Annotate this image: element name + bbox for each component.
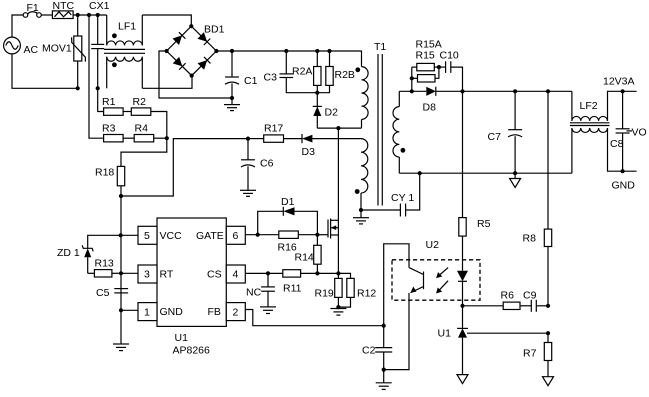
svg-text:R8: R8 xyxy=(523,233,537,245)
svg-text:CX1: CX1 xyxy=(89,0,110,12)
svg-text:C6: C6 xyxy=(260,158,274,170)
wire TL431 ref to divider xyxy=(467,332,548,334)
svg-text:GATE: GATE xyxy=(196,230,224,242)
svg-text:R2B: R2B xyxy=(335,69,355,81)
wire R3 feed (from top rail down to R3) xyxy=(89,15,104,138)
svg-text:C2: C2 xyxy=(362,345,376,357)
inductor LF2 xyxy=(570,91,637,173)
resistor R2B xyxy=(317,51,355,93)
svg-text:FB: FB xyxy=(208,306,221,318)
resistor R3 xyxy=(102,123,123,142)
wire gate node to MOSFET gate xyxy=(317,234,328,236)
svg-text:1: 1 xyxy=(144,306,150,318)
svg-text:GND: GND xyxy=(612,180,636,192)
node R5 top xyxy=(460,89,464,93)
wire secondary positive rail xyxy=(399,90,426,92)
resistor R18 xyxy=(95,166,125,185)
svg-text:T1: T1 xyxy=(374,41,386,53)
svg-text:VO: VO xyxy=(632,127,647,139)
wire AC top lead xyxy=(12,15,23,37)
ground (R19/R12) xyxy=(330,309,346,316)
svg-text:VCC: VCC xyxy=(160,230,183,242)
node C7 top xyxy=(513,89,517,93)
svg-text:NC: NC xyxy=(246,287,262,299)
resistor R8 xyxy=(523,91,552,305)
MOSFET Q1 xyxy=(328,219,338,239)
wire R2 right to R4 node xyxy=(151,112,167,139)
svg-text:R17: R17 xyxy=(264,123,283,135)
resistor R7 xyxy=(523,333,552,377)
capacitor CY1 xyxy=(361,173,420,216)
node C7 bottom xyxy=(513,171,517,175)
node C1 bottom xyxy=(230,96,234,100)
svg-text:C3: C3 xyxy=(264,72,278,84)
wire bridge negative (left corner to C1 ground rail) xyxy=(159,51,232,98)
svg-text:R11: R11 xyxy=(283,283,302,295)
ground (C1) xyxy=(224,98,240,111)
ground (C7, open triangle) xyxy=(514,173,516,178)
wire CS pin4 to source node xyxy=(245,272,282,274)
node C2 bottom xyxy=(382,368,386,372)
node D1 left xyxy=(256,233,260,237)
ground (aux winding) xyxy=(353,210,369,224)
wire FB node up to opto collector xyxy=(384,244,409,326)
svg-text:D1: D1 xyxy=(281,196,295,208)
capacitor C5 xyxy=(96,287,128,299)
capacitor C8 xyxy=(610,91,630,171)
pin 4 CS xyxy=(226,265,245,283)
svg-text:3: 3 xyxy=(144,269,150,281)
optocoupler U2 xyxy=(392,239,480,300)
node R2/R4 junction xyxy=(165,136,169,140)
node C1 top xyxy=(230,49,234,53)
wire R3 to R4 xyxy=(123,137,134,139)
svg-text:C1: C1 xyxy=(244,75,258,87)
svg-text:R3: R3 xyxy=(102,123,116,135)
node LED cathode / R6 xyxy=(460,304,464,308)
node R14 bottom xyxy=(315,271,319,275)
svg-text:U2: U2 xyxy=(426,239,440,251)
wire bottom rail LF1 to bridge xyxy=(142,76,192,89)
svg-text:F1: F1 xyxy=(27,2,39,14)
svg-text:R6: R6 xyxy=(501,290,515,302)
wire R18 bottom to VCC node xyxy=(120,186,122,196)
transformer T1 secondary winding xyxy=(393,91,405,173)
resistor R5 xyxy=(459,91,491,259)
bridge rectifier BD1 xyxy=(165,24,225,78)
resistor R11 xyxy=(283,270,318,295)
svg-text:R14: R14 xyxy=(295,252,314,264)
pin 1 GND xyxy=(121,303,157,321)
diode D2 xyxy=(313,93,338,128)
resistor R15 xyxy=(412,39,442,71)
svg-text:R13: R13 xyxy=(95,258,114,270)
node drain branch xyxy=(336,126,340,130)
svg-text:NTC: NTC xyxy=(53,0,75,12)
wire secondary ground rail xyxy=(399,172,572,174)
node C10 left xyxy=(437,65,441,69)
svg-text:R12: R12 xyxy=(357,288,376,300)
node CX1 bottom / R1 branch xyxy=(96,86,100,90)
shunt regulator U1 (TL431) xyxy=(438,328,468,375)
wire snubber to primary bottom (drain node) xyxy=(317,127,361,129)
diode D8 xyxy=(423,87,463,114)
svg-text:R2A: R2A xyxy=(292,66,312,78)
pin 2 FB xyxy=(226,303,245,321)
zener ZD1 xyxy=(57,235,121,273)
node CX1 top xyxy=(96,13,100,17)
svg-text:U1: U1 xyxy=(438,328,452,340)
svg-text:GND: GND xyxy=(160,306,184,318)
wire rail D8 to LF2 xyxy=(463,90,572,92)
diode D3 xyxy=(284,134,362,158)
wire drain vertical xyxy=(337,128,339,273)
resistor R19 xyxy=(315,273,343,307)
common-mode choke LF1 xyxy=(104,15,145,88)
svg-text:AP8266: AP8266 xyxy=(173,345,211,357)
svg-text:RT: RT xyxy=(160,269,174,281)
node CX1 top R3-branch xyxy=(87,13,91,17)
wire R1 to R2 xyxy=(123,111,131,113)
resistor R6 xyxy=(463,290,532,310)
pin 3 RT xyxy=(121,265,157,283)
svg-text:D8: D8 xyxy=(423,102,437,114)
ground (TL431, open triangle) xyxy=(457,375,468,384)
ground (R7, open triangle) xyxy=(543,377,554,386)
capacitor C1 xyxy=(225,51,258,98)
svg-text:R15: R15 xyxy=(416,50,435,62)
svg-text:AC: AC xyxy=(24,44,39,56)
svg-text:R19: R19 xyxy=(315,288,334,300)
transformer T1 primary winding xyxy=(355,41,386,128)
wire bridge positive rail xyxy=(216,50,361,52)
node divider mid xyxy=(546,331,550,335)
svg-text:R5: R5 xyxy=(477,218,491,230)
node source/R19 xyxy=(336,271,340,275)
wire R18 node to C6/R17 line xyxy=(121,139,248,196)
node snubber bottom xyxy=(315,91,319,95)
svg-text:C10: C10 xyxy=(440,50,459,62)
svg-text:R7: R7 xyxy=(523,348,537,360)
svg-text:LF2: LF2 xyxy=(580,100,598,112)
wire FB pin2 to C2 node xyxy=(245,310,383,326)
wire R15 branch left xyxy=(411,67,413,91)
svg-text:C8: C8 xyxy=(610,138,624,150)
wire NTC to LF1 (top rail) xyxy=(73,14,107,16)
capacitor C7 xyxy=(488,91,523,173)
node 12V output xyxy=(621,89,625,93)
resistor R16 xyxy=(278,231,318,254)
node NC branch xyxy=(266,271,270,275)
resistor R2 xyxy=(131,96,151,115)
wire LED cathode to R6 xyxy=(462,300,464,328)
pin 5 VCC xyxy=(121,226,157,244)
svg-text:R4: R4 xyxy=(135,123,149,135)
svg-text:D2: D2 xyxy=(325,107,339,119)
AC source xyxy=(4,37,39,56)
svg-text:12V3A: 12V3A xyxy=(603,76,635,88)
fuse F1 xyxy=(23,2,41,17)
wire top rail LF1 to bridge xyxy=(142,15,191,26)
capacitor NC xyxy=(246,273,275,307)
op-amp U1 AP8266 controller IC body xyxy=(157,218,226,357)
node R15A left xyxy=(410,76,414,80)
node GND pin1 xyxy=(119,308,123,312)
svg-text:LF1: LF1 xyxy=(118,21,136,33)
node R8/R6 junction xyxy=(546,304,550,308)
svg-text:C9: C9 xyxy=(523,290,537,302)
node FB/C2 xyxy=(382,324,386,328)
transformer T1 aux winding xyxy=(355,139,368,210)
thermistor NTC xyxy=(52,0,74,19)
node MOV bottom xyxy=(76,86,80,90)
node C6 top xyxy=(246,137,250,141)
svg-text:BD1: BD1 xyxy=(204,24,225,36)
node R18 bottom xyxy=(119,194,123,198)
capacitor C9 xyxy=(523,290,548,312)
resistor R2A xyxy=(292,51,321,93)
svg-text:2: 2 xyxy=(233,306,239,318)
capacitor C2 xyxy=(362,326,392,370)
svg-text:5: 5 xyxy=(144,230,150,242)
pin 6 GATE xyxy=(226,226,245,244)
capacitor CX1 xyxy=(89,0,110,88)
svg-text:4: 4 xyxy=(233,269,239,281)
node R2B top xyxy=(327,49,331,53)
svg-text:D3: D3 xyxy=(302,146,316,158)
capacitor C10 xyxy=(439,50,463,92)
svg-text:6: 6 xyxy=(233,230,239,242)
svg-text:R1: R1 xyxy=(102,96,116,108)
resistor R4 xyxy=(134,123,154,142)
wire node to R18 top xyxy=(121,138,167,166)
svg-text:C7: C7 xyxy=(488,131,502,143)
node CY branch xyxy=(418,171,422,175)
resistor R15A xyxy=(412,50,439,83)
svg-text:R2: R2 xyxy=(133,96,147,108)
resistor R12 xyxy=(338,278,376,307)
svg-text:R18: R18 xyxy=(95,167,114,179)
wire CS line to R12 xyxy=(317,273,350,278)
wire VCC vertical xyxy=(120,196,122,344)
resistor R1 xyxy=(102,96,123,115)
node R19/R12 ground xyxy=(336,305,340,309)
node RT pin3 xyxy=(119,271,123,275)
node aux ground xyxy=(359,208,363,212)
resistor R13 xyxy=(88,258,121,278)
node R2A top xyxy=(315,49,319,53)
wire R1 feed xyxy=(98,88,104,111)
wire GATE pin6 to gate node xyxy=(245,234,278,236)
svg-text:MOV1: MOV1 xyxy=(42,43,72,55)
capacitor C6 xyxy=(241,139,274,191)
node VCC pin5 xyxy=(119,233,123,237)
wire AC bottom lead xyxy=(12,54,76,88)
wire F1 to NTC xyxy=(41,14,52,16)
capacitor C3 xyxy=(264,51,318,93)
label VO with tick xyxy=(627,127,647,139)
svg-text:U1: U1 xyxy=(175,332,189,344)
svg-text:C5: C5 xyxy=(96,287,110,299)
ground (NC cap) xyxy=(260,307,276,314)
ground (IC GND) xyxy=(113,344,129,351)
varistor MOV1 xyxy=(42,15,85,88)
node R8 top xyxy=(546,89,550,93)
node MOV top xyxy=(76,13,80,17)
svg-text:ZD 1: ZD 1 xyxy=(57,247,80,259)
wire opto emitter to C2 node xyxy=(384,300,409,370)
diode D1 xyxy=(258,196,318,235)
node gate/R14 xyxy=(315,233,319,237)
ground (C6) xyxy=(240,190,256,196)
svg-text:CS: CS xyxy=(207,269,222,281)
resistor R17 xyxy=(248,123,284,143)
transformer T1 core xyxy=(378,54,382,206)
ground (C2) xyxy=(376,370,392,390)
svg-text:CY 1: CY 1 xyxy=(391,192,414,204)
wire R4 to node xyxy=(154,137,167,139)
resistor R14 xyxy=(295,235,322,274)
node C3 top xyxy=(284,49,288,53)
node output gnd xyxy=(621,169,625,173)
node D8 anode / snubber xyxy=(410,89,414,93)
